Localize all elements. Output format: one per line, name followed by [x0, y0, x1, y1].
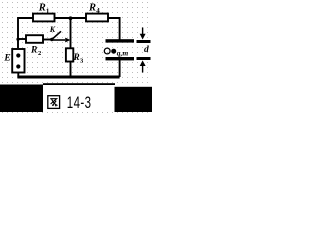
svg-text:1: 1: [46, 7, 50, 15]
switch K blade: [52, 31, 61, 39]
switch K pivot: [50, 38, 53, 41]
battery E box: [12, 49, 24, 73]
svg-text:q,m: q,m: [117, 49, 129, 58]
charged ball: [111, 49, 116, 54]
wire: top wire right segment + capacitor top stem: [108, 18, 120, 40]
node O (open circle): [104, 48, 110, 54]
svg-text:E: E: [3, 54, 10, 64]
wire: top wire left segment with left vertical wire: [18, 18, 33, 48]
wire: switch to middle node with arrowhead: [53, 39, 65, 41]
svg-text:2: 2: [38, 50, 41, 57]
battery terminal dot upper: [16, 53, 20, 57]
node: junction left wire / middle branch: [16, 38, 19, 41]
caption text 14-3: [67, 94, 92, 113]
black highlight band right: [115, 87, 153, 112]
svg-text:4: 4: [96, 7, 100, 15]
battery terminal dot lower: [16, 64, 20, 68]
svg-text:R: R: [30, 46, 37, 56]
wire: capacitor bottom stem: [119, 59, 121, 77]
black line above caption box: [43, 83, 115, 85]
wire: bottom wire: [17, 76, 119, 79]
wire: resistor R2 to switch pivot: [43, 39, 52, 41]
svg-text:d: d: [144, 45, 149, 55]
caption glyph 图: [48, 96, 60, 109]
node: junction top wire / middle wire: [69, 16, 73, 20]
background: [0, 0, 152, 117]
capacitor bottom plate right tick: [137, 57, 151, 60]
wire: middle vertical upper: [70, 18, 72, 48]
capacitor top plate right tick: [137, 40, 151, 43]
wire: middle branch from left wire: [18, 38, 26, 40]
resistor R4: [86, 14, 108, 22]
svg-text:R: R: [88, 3, 96, 14]
svg-text:R: R: [73, 52, 80, 62]
resistor R1: [33, 14, 55, 22]
dimension arrow down (above top plate): [142, 28, 144, 35]
svg-text:14-3: 14-3: [67, 94, 92, 113]
svg-text:K: K: [49, 25, 56, 34]
wire: middle vertical lower: [70, 62, 72, 78]
capacitor top plate: [106, 39, 135, 42]
svg-text:R: R: [38, 3, 46, 14]
dimension arrow up (below bottom plate): [140, 60, 146, 66]
resistor R2: [26, 35, 43, 43]
wire: battery to bottom wire: [17, 73, 19, 78]
capacitor bottom plate: [106, 57, 135, 60]
caption white box: [43, 85, 115, 112]
black highlight band left: [0, 85, 43, 113]
resistor R3: [66, 48, 73, 61]
wire: top wire middle segment: [55, 17, 87, 19]
